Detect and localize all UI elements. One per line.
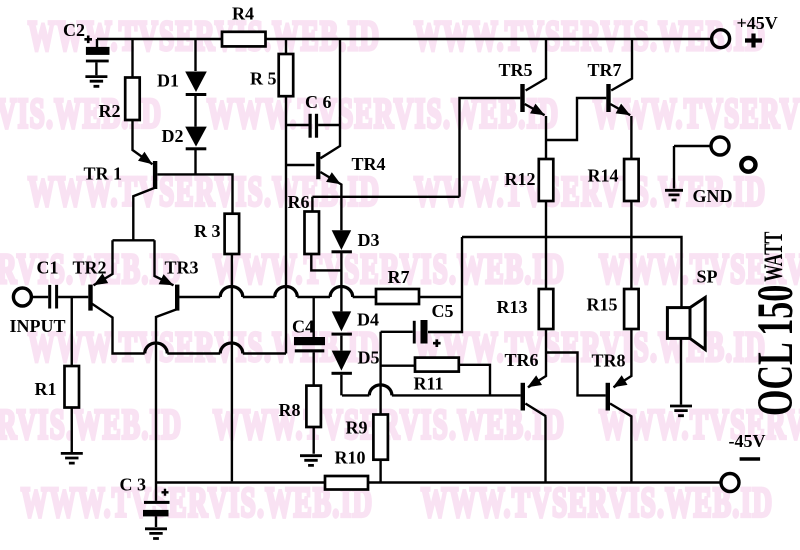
- svg-text:WWW.TVSERVIS.WEB.ID: WWW.TVSERVIS.WEB.ID: [21, 479, 373, 525]
- svg-text:TR 1: TR 1: [84, 164, 123, 184]
- svg-text:R1: R1: [35, 379, 57, 399]
- svg-text:D4: D4: [357, 310, 379, 330]
- svg-text:D5: D5: [358, 348, 380, 368]
- svg-text:R4: R4: [232, 4, 254, 24]
- svg-text:SP: SP: [697, 267, 718, 287]
- svg-text:R10: R10: [335, 448, 366, 468]
- svg-text:TR7: TR7: [588, 60, 622, 80]
- svg-text:+45V: +45V: [737, 13, 778, 33]
- svg-text:R12: R12: [505, 169, 536, 189]
- svg-text:C5: C5: [432, 301, 454, 321]
- svg-text:R15: R15: [587, 295, 618, 315]
- svg-text:TR4: TR4: [352, 154, 386, 174]
- svg-text:WWW.TVSERVIS.WEB.ID: WWW.TVSERVIS.WEB.ID: [28, 324, 380, 370]
- svg-text:C 3: C 3: [120, 475, 147, 495]
- svg-text:GND: GND: [693, 186, 733, 206]
- svg-text:TR8: TR8: [592, 351, 626, 371]
- svg-text:WWW.TVSERVIS.WEB.ID: WWW.TVSERVIS.WEB.ID: [414, 324, 766, 370]
- svg-text:R7: R7: [388, 267, 410, 287]
- svg-text:R 5: R 5: [250, 69, 277, 89]
- svg-text:TR6: TR6: [505, 350, 539, 370]
- svg-text:R13: R13: [497, 297, 528, 317]
- svg-text:TR5: TR5: [499, 60, 533, 80]
- svg-text:D3: D3: [358, 230, 380, 250]
- svg-text:INPUT: INPUT: [10, 316, 66, 336]
- svg-text:TR3: TR3: [165, 258, 199, 278]
- svg-text:D2: D2: [162, 126, 184, 146]
- svg-text:C1: C1: [37, 258, 59, 278]
- svg-text:R2: R2: [99, 101, 121, 121]
- svg-text:R6: R6: [288, 192, 310, 212]
- svg-text:R9: R9: [346, 418, 368, 438]
- svg-text:C2: C2: [63, 20, 85, 40]
- svg-text:R14: R14: [588, 166, 619, 186]
- svg-text:R8: R8: [279, 400, 301, 420]
- svg-text:C4: C4: [292, 317, 314, 337]
- svg-text:TR2: TR2: [73, 258, 107, 278]
- svg-text:C 6: C 6: [305, 92, 332, 112]
- svg-text:R 3: R 3: [194, 221, 221, 241]
- svg-text:-45V: -45V: [729, 431, 766, 451]
- svg-text:R11: R11: [414, 374, 444, 394]
- svg-text:D1: D1: [157, 71, 179, 91]
